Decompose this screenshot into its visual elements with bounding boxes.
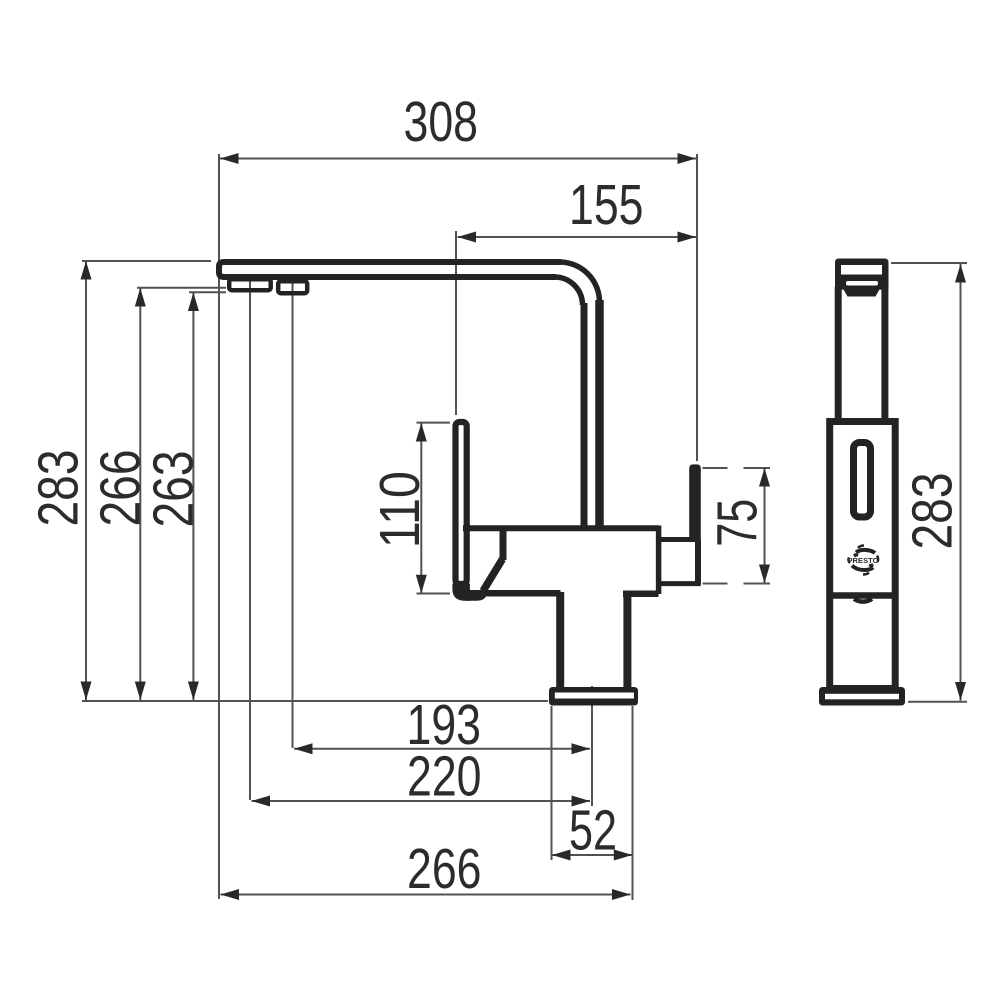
wire extension line x632 flange right	[632, 706, 634, 900]
handle lever bar	[689, 464, 701, 542]
dimension 110 line	[420, 423, 422, 593]
dimension 220 line	[252, 800, 591, 802]
side lever bar	[456, 422, 467, 584]
diagonal lever	[483, 559, 503, 591]
handle block bottom	[661, 581, 701, 586]
arrow 266L top	[135, 288, 146, 307]
wire baseline extension y701	[82, 700, 548, 702]
cap	[835, 259, 889, 297]
neck right edge	[881, 287, 888, 421]
arrow 220 left	[252, 796, 271, 807]
svg-text:52: 52	[569, 799, 617, 863]
side lever bottom bulge	[466, 593, 485, 599]
wire extension line y468 handle top	[703, 467, 771, 469]
arrow 110 bottom	[416, 575, 427, 594]
outlet 2	[278, 281, 307, 293]
wire extension line right x697	[696, 154, 698, 461]
wire extension line x292 outlet2 center	[292, 283, 294, 748]
arrow 75 top	[759, 468, 770, 487]
wire extension line x592 column center	[591, 686, 593, 806]
arrow 193 right	[572, 743, 591, 754]
svg-text:283: 283	[27, 450, 91, 527]
neck left edge	[835, 287, 842, 421]
arrow 266L bottom	[135, 682, 146, 701]
svg-text:110: 110	[368, 471, 432, 548]
wire extension line y292	[189, 291, 226, 293]
dimension 308 line	[220, 158, 696, 160]
handle block top	[660, 537, 693, 542]
body left edge	[500, 526, 507, 560]
arrow 52 right	[614, 850, 633, 861]
arrow 155 left	[458, 232, 477, 243]
outlet 1	[229, 279, 271, 290]
wire extension line x250 outlet1 center	[249, 281, 251, 800]
wire extension line x456	[455, 231, 457, 415]
dimension 266 left line	[139, 288, 141, 700]
wire extension line y263 right view top	[891, 262, 967, 264]
dimension 75 line	[764, 468, 766, 583]
wire extension line y593 lever bottom	[417, 593, 451, 595]
arrow 283L top	[81, 261, 92, 280]
arrow 263L bottom	[188, 682, 199, 701]
arrow 308 right	[678, 153, 697, 164]
right body divider	[827, 592, 898, 599]
wire extension line y261 spout top	[82, 260, 211, 262]
body bottom line left	[457, 590, 561, 597]
column left edge	[556, 592, 564, 688]
side lever bottom solid foot	[452, 584, 470, 601]
spout outer bend	[559, 262, 600, 302]
presto logo	[848, 546, 879, 575]
svg-text:283: 283	[901, 473, 965, 550]
arrow 110 top	[416, 423, 427, 442]
arrow 308 left	[220, 153, 239, 164]
wire extension line y702 right view bottom	[908, 701, 967, 703]
arrow 283R bottom	[955, 682, 966, 701]
arrows	[81, 153, 967, 900]
arrow 266B right	[612, 889, 631, 900]
svg-text:308: 308	[404, 90, 479, 154]
svg-text:266: 266	[407, 837, 482, 901]
body top line	[463, 525, 659, 531]
svg-text:263: 263	[142, 451, 206, 528]
arrow 155 right	[678, 232, 697, 243]
wire extension line x551 flange left	[551, 706, 553, 860]
dimension 263 left line	[192, 293, 194, 701]
dimension 155 line	[458, 236, 697, 238]
dimension 283 left line	[85, 261, 87, 700]
svg-text:75: 75	[706, 499, 770, 547]
handle block right edge	[695, 540, 701, 584]
dimension 193 line	[294, 748, 590, 750]
base flange	[549, 687, 638, 706]
wire extension line y583 handle block bottom	[703, 583, 771, 585]
wire extension line left x219	[218, 154, 220, 899]
window	[854, 443, 871, 518]
column right edge	[623, 592, 631, 688]
right body outline	[830, 422, 896, 689]
svg-text:155: 155	[569, 173, 644, 237]
spout inner bend	[554, 277, 583, 305]
arrow 263L top	[188, 293, 199, 312]
wire extension line y422 lever top	[417, 422, 451, 424]
arrow 283L bottom	[81, 682, 92, 701]
arrow 193 left	[294, 743, 313, 754]
pipe inner left edge	[581, 303, 588, 527]
arrow 220 right	[572, 796, 591, 807]
dimension 52 line	[552, 854, 632, 856]
body bottom line right	[623, 591, 659, 598]
svg-text:220: 220	[407, 745, 482, 809]
arrow 75 bottom	[759, 565, 770, 584]
right body divider bump	[854, 599, 872, 602]
svg-text:PRESTO: PRESTO	[848, 556, 879, 565]
body right edge	[656, 526, 662, 595]
arrow 283R top	[955, 264, 966, 283]
pipe outer right edge	[595, 300, 604, 527]
right base flange	[819, 687, 905, 706]
spout tube outline	[219, 262, 561, 277]
dimension 266 bottom line	[221, 894, 631, 896]
dimension 283 right line	[960, 264, 962, 701]
arrow 266B left	[221, 889, 240, 900]
arrow 52 left	[552, 850, 571, 861]
wire extension line y288	[137, 287, 226, 289]
